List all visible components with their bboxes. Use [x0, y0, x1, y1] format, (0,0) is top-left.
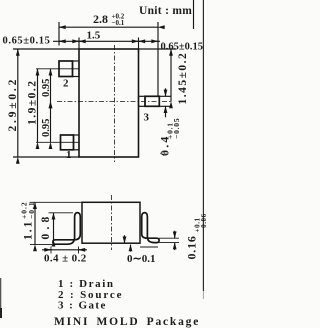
svg-text:0.65±0.15: 0.65±0.15 — [3, 36, 51, 47]
svg-text:0∼0.1: 0∼0.1 — [127, 253, 155, 265]
svg-text:0.65±0.15: 0.65±0.15 — [161, 42, 204, 53]
svg-text:0.4 ± 0.2: 0.4 ± 0.2 — [44, 253, 87, 265]
svg-text:1: 1 — [66, 149, 72, 161]
svg-text:3 : Gate: 3 : Gate — [58, 300, 107, 312]
svg-text:−0.1: −0.1 — [27, 201, 36, 219]
svg-text:1.1: 1.1 — [23, 220, 35, 240]
svg-text:−0.05: −0.05 — [172, 118, 181, 139]
svg-text:0.95: 0.95 — [41, 119, 52, 137]
svg-text:−0.1: −0.1 — [112, 19, 125, 27]
svg-text:0.95: 0.95 — [41, 79, 52, 97]
svg-text:2.9±0.2: 2.9±0.2 — [7, 77, 19, 132]
svg-text:3: 3 — [144, 112, 150, 124]
svg-text:MINI MOLD Package: MINI MOLD Package — [54, 316, 200, 328]
svg-text:1.9±0.2: 1.9±0.2 — [26, 79, 38, 125]
svg-text:Unit : mm: Unit : mm — [139, 5, 192, 17]
svg-text:−0.06: −0.06 — [200, 213, 207, 232]
svg-text:1.5: 1.5 — [87, 30, 101, 42]
svg-text:2.8: 2.8 — [93, 12, 108, 26]
svg-text:0.16: 0.16 — [185, 235, 199, 259]
svg-text:0.8: 0.8 — [40, 213, 52, 240]
svg-text:2: 2 — [63, 78, 69, 90]
svg-text:1.45±0.2: 1.45±0.2 — [177, 52, 189, 105]
